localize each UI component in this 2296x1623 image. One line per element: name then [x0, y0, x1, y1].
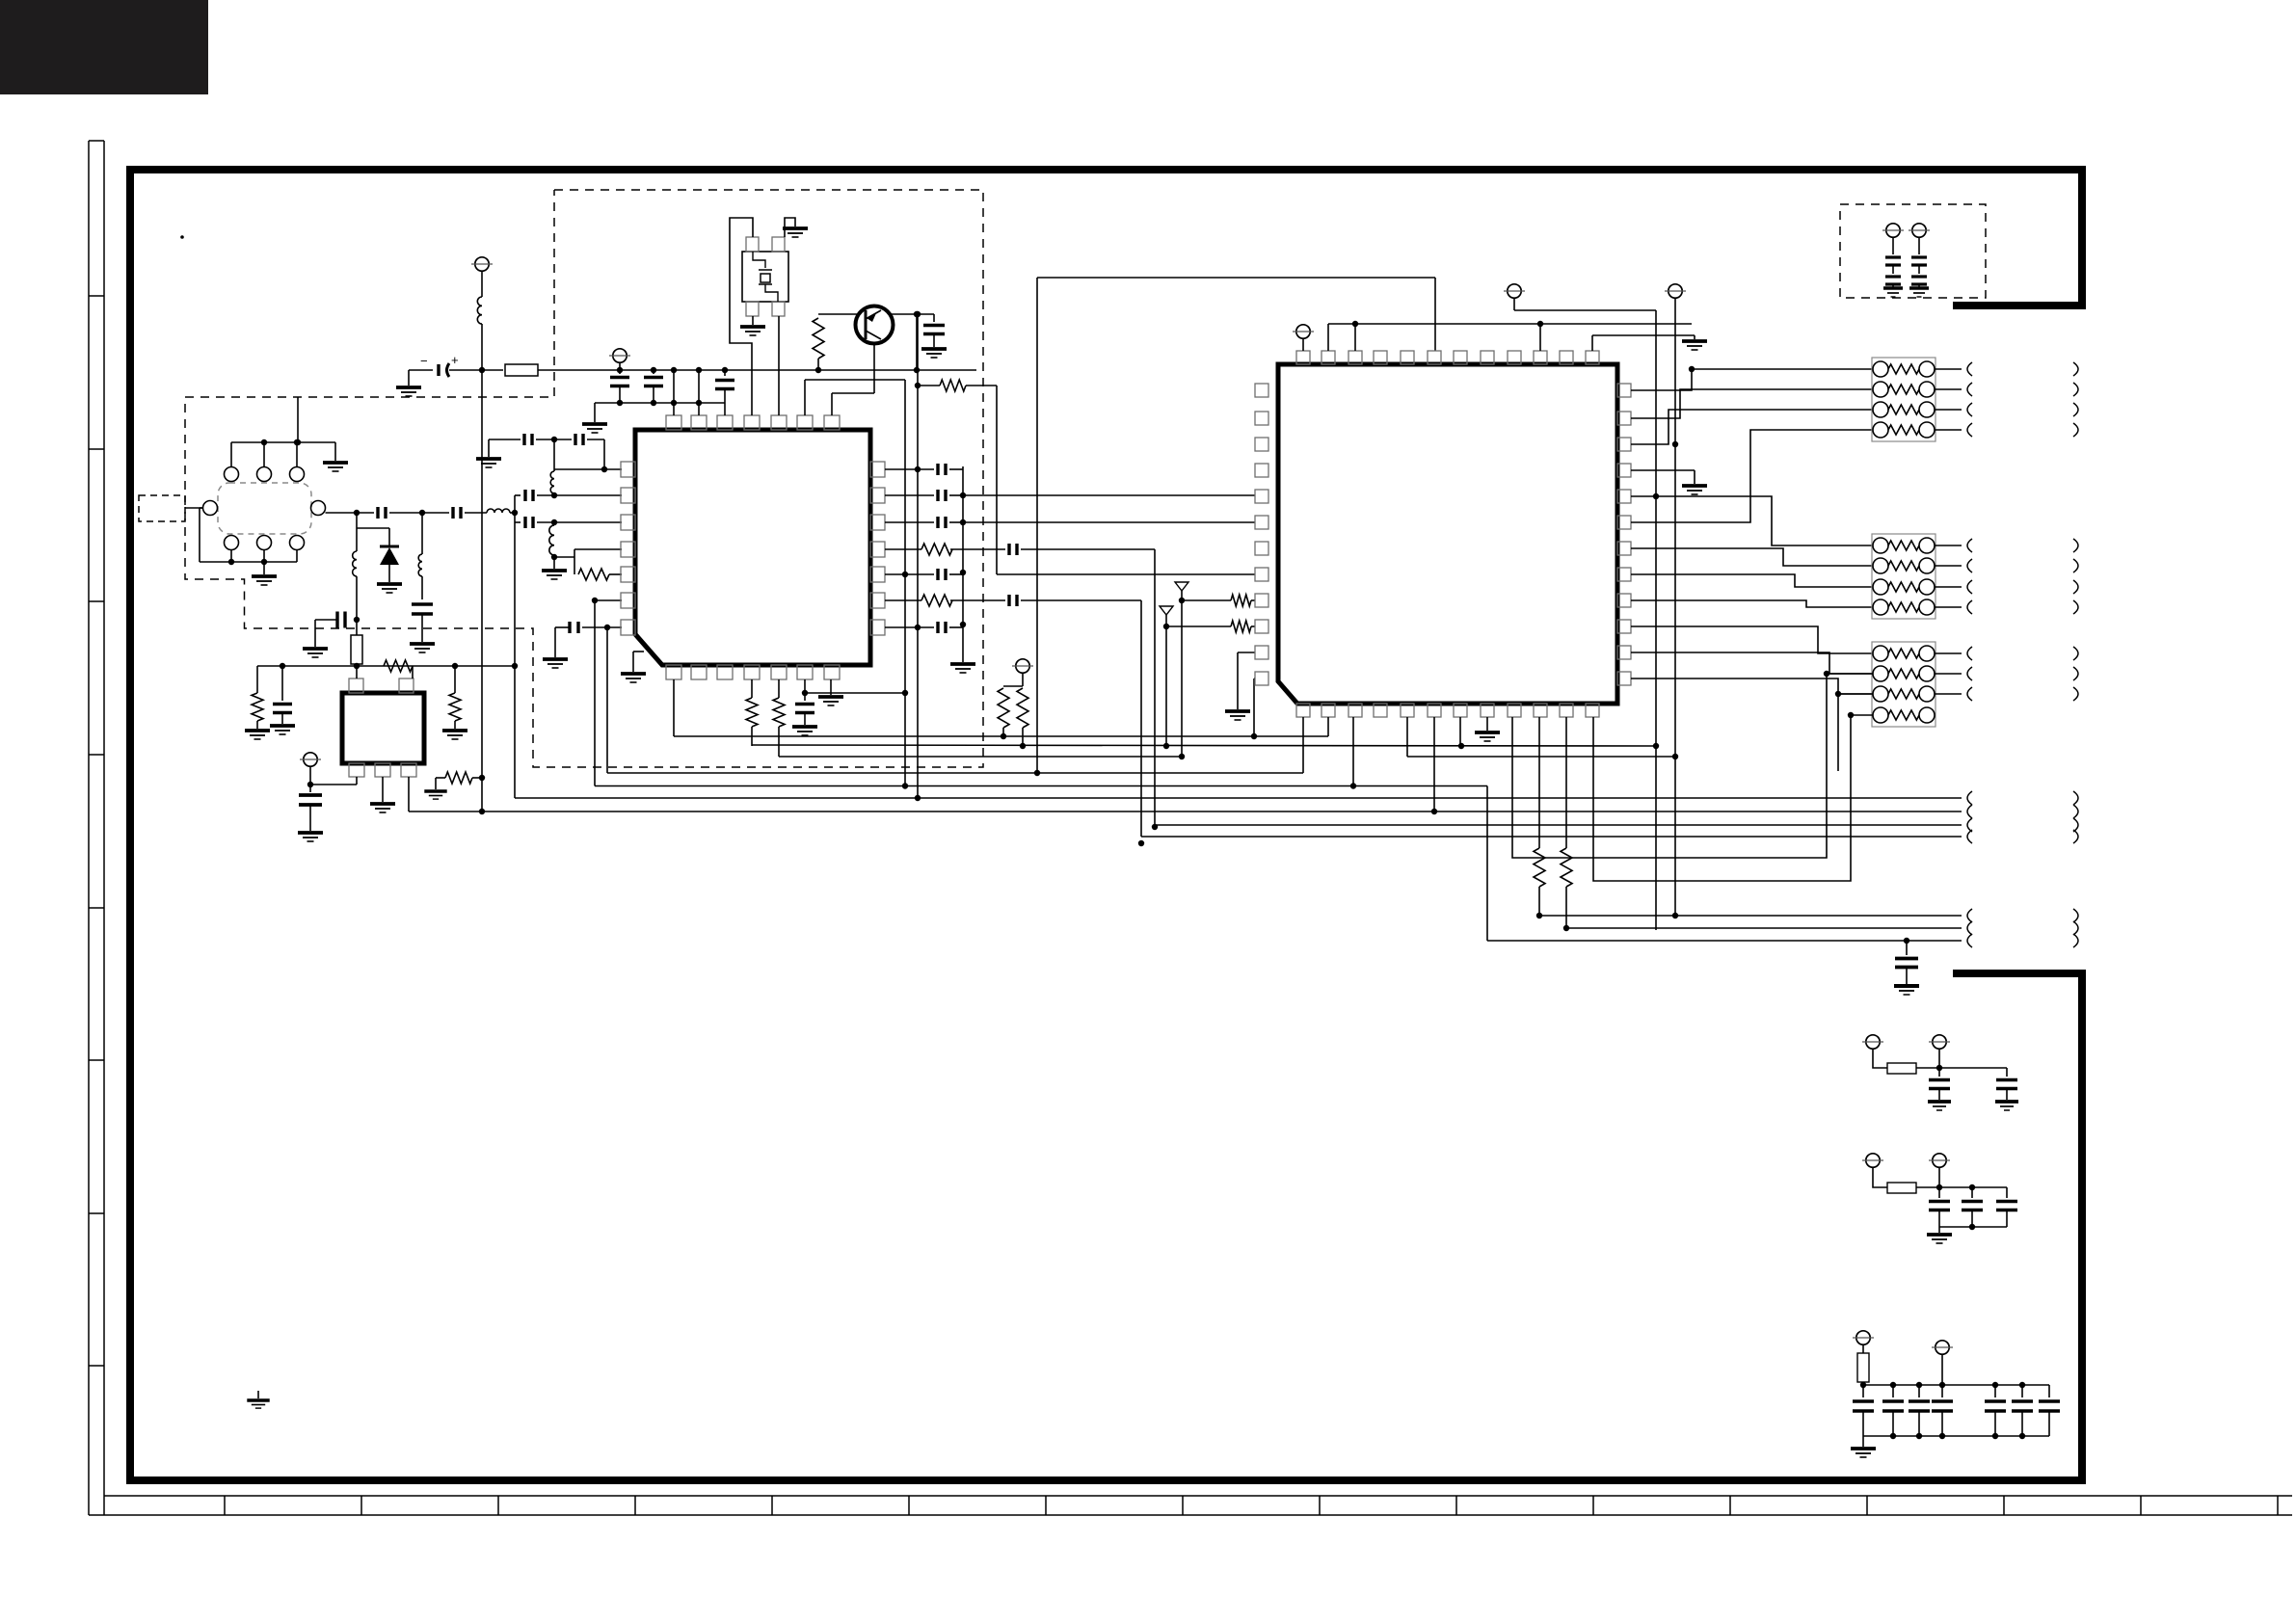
svg-text:+: +	[451, 353, 459, 367]
svg-text:−: −	[420, 354, 428, 368]
